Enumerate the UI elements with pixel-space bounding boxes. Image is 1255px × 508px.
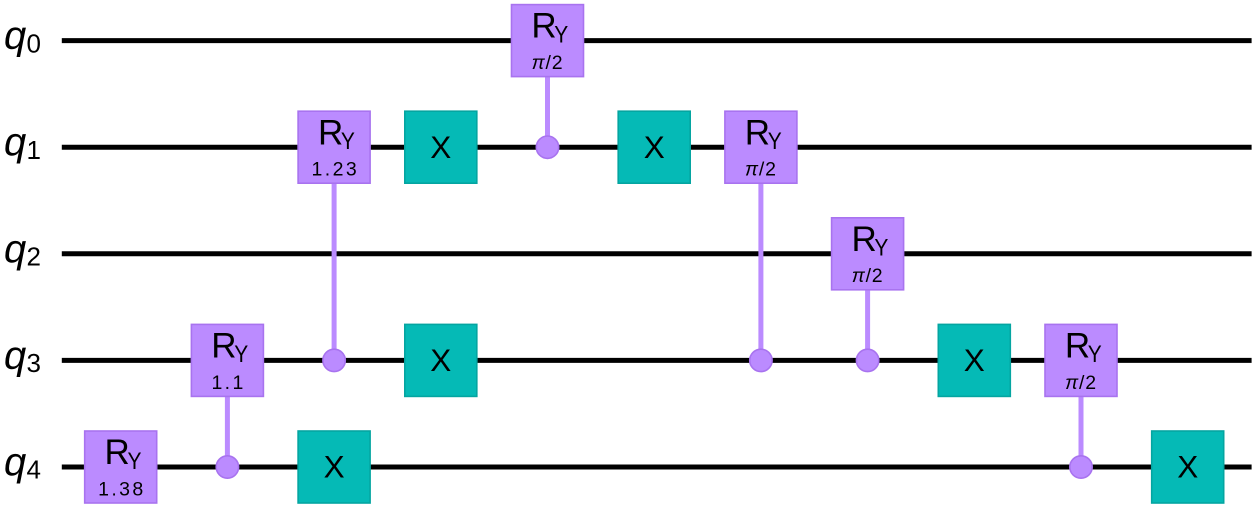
gate X on q1 col5 [618, 111, 690, 183]
svg-text:X: X [1177, 449, 1198, 485]
qubit label q0 [4, 14, 41, 59]
svg-text:X: X [644, 129, 665, 165]
svg-text:π/2: π/2 [852, 265, 884, 287]
svg-text:X: X [430, 342, 451, 378]
gate RY(pi/2) on q2 col7 [832, 218, 904, 290]
control line CRY col4 q0-q1 [545, 77, 550, 148]
qubit label q4 [4, 440, 41, 485]
gate X on q3 col3 [405, 324, 477, 396]
svg-text:R: R [851, 220, 876, 259]
control dot col7 on q3 [856, 349, 878, 371]
wire q4 [62, 465, 1252, 470]
gate X on q1 col3 [405, 111, 477, 183]
svg-text:X: X [430, 129, 451, 165]
control line CRY col7 q2-q3 [865, 290, 870, 361]
svg-text:Y: Y [341, 128, 355, 155]
svg-text:1.23: 1.23 [312, 159, 360, 181]
svg-text:R: R [1065, 327, 1090, 366]
svg-text:1: 1 [27, 135, 41, 165]
control dot col1 on q4 [216, 456, 238, 478]
svg-text:X: X [324, 449, 345, 485]
gate RY(1.23) on q1 col2 [298, 111, 370, 183]
wire q0 [62, 38, 1252, 43]
wire q1 [62, 145, 1252, 150]
svg-text:Y: Y [234, 341, 248, 368]
svg-text:3: 3 [27, 348, 41, 378]
gate X on q3 col8 [938, 324, 1010, 396]
svg-text:2: 2 [27, 242, 41, 272]
svg-text:Y: Y [554, 21, 568, 48]
qubit label q3 [4, 333, 41, 378]
svg-text:π/2: π/2 [745, 159, 777, 181]
svg-text:X: X [964, 342, 985, 378]
control line CRY col6 q1-q3 [758, 183, 763, 360]
svg-text:Y: Y [1088, 341, 1102, 368]
gate RY(pi/2) on q1 col6 [725, 111, 797, 183]
control dot col2 on q3 [323, 349, 345, 371]
svg-text:π/2: π/2 [532, 52, 564, 74]
gate RY(pi/2) on q3 col9 [1045, 324, 1117, 396]
qubit label q1 [4, 120, 41, 165]
svg-text:0: 0 [27, 28, 41, 58]
wire q3 [62, 358, 1252, 363]
svg-text:Y: Y [768, 128, 782, 155]
svg-text:π/2: π/2 [1065, 372, 1097, 394]
svg-text:R: R [318, 113, 343, 152]
svg-text:1.1: 1.1 [211, 372, 245, 394]
svg-text:q: q [4, 14, 26, 58]
gate RY(pi/2) on q0 col4 [512, 5, 584, 77]
gate RY(1.38) on q4 col0 [85, 431, 157, 503]
control dot col9 on q4 [1070, 456, 1092, 478]
control dot col6 on q3 [750, 349, 772, 371]
wire q2 [62, 251, 1252, 256]
control line CRY col9 q3-q4 [1079, 396, 1084, 467]
svg-text:R: R [211, 327, 236, 366]
gate X on q4 col10 [1152, 431, 1224, 503]
svg-text:Y: Y [128, 448, 142, 475]
svg-text:R: R [105, 433, 130, 472]
control line CRY col1 q3-q4 [225, 396, 230, 467]
control dot col4 on q1 [536, 136, 558, 158]
gate X on q4 col2 [298, 431, 370, 503]
svg-text:q: q [4, 440, 26, 484]
svg-text:R: R [531, 7, 556, 46]
gate RY(1.1) on q3 col1 [191, 324, 263, 396]
svg-text:1.38: 1.38 [98, 478, 146, 500]
svg-text:q: q [4, 333, 26, 377]
svg-text:q: q [4, 227, 26, 271]
svg-text:R: R [745, 113, 770, 152]
svg-text:q: q [4, 120, 26, 164]
svg-text:Y: Y [874, 235, 888, 262]
control line CRY col2 q1-q3 [332, 183, 337, 360]
svg-text:4: 4 [27, 455, 41, 485]
qubit label q2 [4, 227, 41, 272]
